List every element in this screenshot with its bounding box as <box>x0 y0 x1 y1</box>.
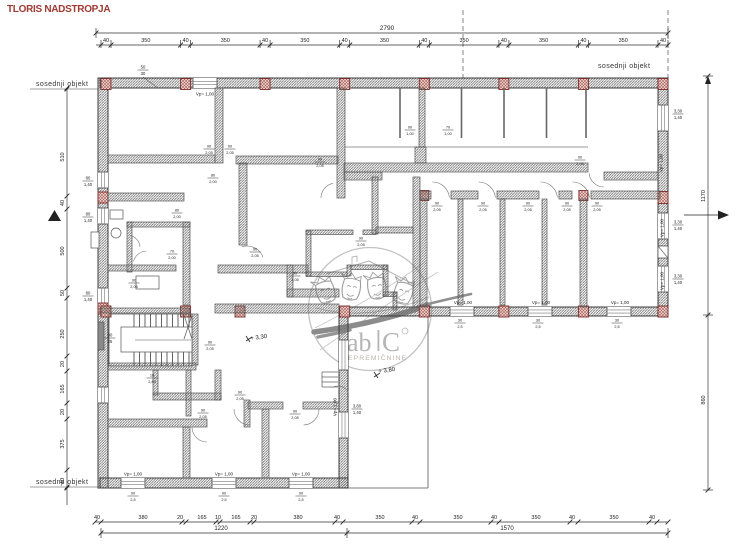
svg-text:500: 500 <box>60 246 66 255</box>
door arc wing 2 <box>234 409 249 425</box>
stack bath door2 <box>167 250 178 260</box>
stack bath door <box>129 279 140 289</box>
svg-text:80: 80 <box>175 209 179 213</box>
svg-text:90: 90 <box>207 145 211 149</box>
window right wall 3 <box>658 266 668 292</box>
svg-text:25: 25 <box>108 339 113 344</box>
column top wall 1 <box>101 79 111 90</box>
svg-text:20: 20 <box>60 361 66 367</box>
stack door e <box>315 158 326 168</box>
window right wall 2 <box>658 213 668 239</box>
svg-text:90: 90 <box>578 156 582 160</box>
svg-text:3,30: 3,30 <box>674 220 683 225</box>
svg-text:90: 90 <box>565 202 569 206</box>
svg-text:50: 50 <box>60 290 66 296</box>
svg-text:40: 40 <box>103 38 109 44</box>
door arc corridor east <box>589 173 604 187</box>
stack door c <box>250 248 261 258</box>
svg-text:350: 350 <box>375 515 384 521</box>
svg-text:20: 20 <box>177 515 183 521</box>
closet wall a <box>153 370 158 395</box>
svg-text:30: 30 <box>141 71 146 76</box>
svg-text:380: 380 <box>138 515 147 521</box>
svg-text:Vp= 1,00: Vp= 1,00 <box>196 92 215 97</box>
wall vestibule east upper <box>372 177 378 234</box>
spine wall mid <box>215 304 339 313</box>
entry steps <box>322 371 338 373</box>
wall top band east <box>419 88 425 147</box>
svg-text:165: 165 <box>231 515 240 521</box>
wall wing room partition 2 <box>262 409 269 478</box>
svg-text:40: 40 <box>501 38 507 44</box>
svg-text:20: 20 <box>60 409 66 415</box>
svg-text:350: 350 <box>609 515 618 521</box>
svg-text:90: 90 <box>253 248 257 252</box>
svg-text:1170: 1170 <box>701 190 707 202</box>
wall wing rooms north mid <box>248 402 283 409</box>
stack room door <box>562 202 573 212</box>
window right-section bottom 1 <box>450 307 474 316</box>
door arc hall east <box>321 183 333 198</box>
column spine row 3 <box>235 306 245 317</box>
window wing bottom 3 <box>289 478 313 488</box>
shaft left wall <box>98 322 104 350</box>
window right-section bottom 3 <box>607 307 631 316</box>
svg-text:2,05: 2,05 <box>479 208 486 212</box>
stairs <box>109 314 192 366</box>
loggia divider <box>399 88 401 138</box>
svg-text:2,05: 2,05 <box>291 416 298 420</box>
svg-text:40: 40 <box>342 38 348 44</box>
svg-text:2,05: 2,05 <box>236 397 243 401</box>
column top wall 3 <box>260 79 270 90</box>
svg-text:2,00: 2,00 <box>168 256 175 260</box>
wall bath corridor vertical <box>183 222 190 305</box>
svg-text:2790: 2790 <box>380 25 395 32</box>
stack left shaft <box>105 333 116 344</box>
svg-text:40: 40 <box>412 515 418 521</box>
svg-text:ab: ab <box>347 328 372 357</box>
wall niche west <box>306 231 311 276</box>
svg-text:2,05: 2,05 <box>251 254 258 258</box>
outer wall bottom of left wing <box>100 478 348 488</box>
svg-text:90: 90 <box>108 333 113 338</box>
svg-text:2,5: 2,5 <box>614 325 619 329</box>
svg-text:30: 30 <box>536 319 540 323</box>
toilet fixture <box>111 228 121 238</box>
svg-text:80: 80 <box>86 291 91 296</box>
wall bath west <box>127 222 132 272</box>
svg-text:380: 380 <box>293 515 302 521</box>
svg-text:2,05: 2,05 <box>205 151 212 155</box>
svg-text:2,80: 2,80 <box>148 380 155 384</box>
dimension top overall 2790 <box>96 32 668 34</box>
stack room door <box>592 202 603 212</box>
window left wall 3 <box>98 288 108 304</box>
svg-text:350: 350 <box>141 38 150 44</box>
window right wall 1 <box>658 105 668 131</box>
svg-text:50: 50 <box>141 65 146 70</box>
svg-text:350: 350 <box>531 515 540 521</box>
window right-section bottom 2 <box>528 307 552 316</box>
svg-text:Vp= 1,00: Vp= 1,00 <box>333 397 338 416</box>
closet wall c <box>215 370 221 400</box>
svg-text:90: 90 <box>228 145 232 149</box>
stack wing door 1 <box>198 409 209 419</box>
window left wall 4 <box>98 387 108 403</box>
svg-text:165: 165 <box>60 384 66 393</box>
wall niche south b <box>351 265 387 270</box>
outer wall bottom of right section <box>339 307 668 316</box>
svg-text:90: 90 <box>293 272 297 276</box>
svg-text:40: 40 <box>334 515 340 521</box>
stack wing door 2 <box>235 391 246 401</box>
wall bath bottom <box>108 265 176 271</box>
wall niche south c <box>383 292 397 297</box>
shaft right wall <box>658 246 668 258</box>
window top wall <box>193 78 217 88</box>
svg-text:90: 90 <box>201 409 205 413</box>
wall room partition 1 <box>458 199 463 305</box>
svg-text:70: 70 <box>170 250 174 254</box>
wall wing rooms north left <box>108 419 207 427</box>
watermark logo abc nepremicnine <box>309 248 472 371</box>
column top wall 8 <box>658 79 668 90</box>
column right wall mid <box>658 192 668 204</box>
wall hall south jog 1 <box>218 265 308 273</box>
stack left win1 <box>83 176 94 187</box>
dimension top segments <box>96 44 668 46</box>
marker triangle right <box>718 211 729 220</box>
svg-text:350: 350 <box>460 38 469 44</box>
svg-text:2,05: 2,05 <box>563 208 570 212</box>
door arc room <box>573 182 590 198</box>
stack door a <box>208 174 219 184</box>
stack room door <box>432 202 443 212</box>
svg-text:NEPREMIČNINE: NEPREMIČNINE <box>342 353 407 362</box>
wall bottom of top-left room <box>108 155 215 163</box>
svg-text:30: 30 <box>458 319 462 323</box>
stack left win3 <box>83 291 94 302</box>
svg-text:40: 40 <box>580 38 586 44</box>
outer wall right <box>658 78 668 317</box>
svg-text:1,00: 1,00 <box>406 132 413 136</box>
svg-text:250: 250 <box>60 329 66 338</box>
svg-text:40: 40 <box>660 38 666 44</box>
wall bath top <box>127 222 190 227</box>
svg-text:3,30: 3,30 <box>674 109 683 114</box>
stack wing below <box>219 492 230 502</box>
niche band line <box>345 146 588 148</box>
svg-text:350: 350 <box>539 38 548 44</box>
wall niche south a <box>306 272 347 277</box>
column spine row 7 <box>578 306 588 317</box>
svg-text:2,05: 2,05 <box>357 243 364 247</box>
dimension right vertical <box>707 76 709 315</box>
wall room partition hatched a <box>420 199 427 307</box>
svg-text:350: 350 <box>453 515 462 521</box>
stack room door <box>478 202 489 212</box>
svg-text:1220: 1220 <box>214 526 228 532</box>
door arc room <box>541 182 558 198</box>
wall hall south jog 2 <box>287 289 339 297</box>
stack niche <box>405 126 416 136</box>
svg-text:Vp= 1,00: Vp= 1,00 <box>532 300 551 305</box>
column top wall 6 <box>499 79 509 90</box>
stack stair <box>147 374 158 384</box>
svg-text:90: 90 <box>208 341 212 345</box>
stack spine below <box>612 319 623 329</box>
wall wing rooms north right <box>303 402 339 409</box>
door arc hall west <box>242 246 263 257</box>
terrace outline <box>348 487 428 489</box>
svg-text:2,05: 2,05 <box>226 151 233 155</box>
svg-text:10: 10 <box>150 374 154 378</box>
stack vestibule door <box>356 237 367 247</box>
column room row a <box>420 191 429 201</box>
svg-text:40: 40 <box>649 515 655 521</box>
door arc bath <box>134 251 147 261</box>
svg-text:2,5: 2,5 <box>298 498 303 502</box>
wall left apartment <box>108 193 184 201</box>
svg-text:350: 350 <box>380 38 389 44</box>
svg-text:3,30: 3,30 <box>674 274 683 279</box>
dimension left vertical <box>66 88 68 505</box>
svg-text:2,05: 2,05 <box>576 162 583 166</box>
svg-text:860: 860 <box>701 395 707 404</box>
wall room front seg <box>591 191 660 199</box>
svg-text:2,05: 2,05 <box>130 285 137 289</box>
svg-text:1,40: 1,40 <box>674 226 683 231</box>
wall corridor north east part <box>604 172 658 180</box>
loggia divider <box>461 88 463 138</box>
wall niche east down <box>383 265 388 296</box>
column spine row 1 <box>101 306 111 317</box>
wall wing room partition 1 <box>183 427 190 478</box>
column spine row 8 <box>658 306 668 317</box>
wall top-middle room bottom <box>236 156 338 164</box>
stack wing window <box>352 404 363 415</box>
svg-text:90: 90 <box>359 237 363 241</box>
svg-text:Vp= 1,00: Vp= 1,00 <box>660 218 665 237</box>
wall hall jog vertical <box>287 265 293 297</box>
loggia divider <box>503 88 505 138</box>
svg-text:90: 90 <box>435 202 439 206</box>
stack spine below <box>533 319 544 329</box>
svg-text:Vp= 1,00: Vp= 1,00 <box>660 271 665 290</box>
svg-text:90: 90 <box>293 410 297 414</box>
leader top stack <box>143 77 158 88</box>
svg-text:Vp= 1,00: Vp= 1,00 <box>611 300 630 305</box>
wall room front seg <box>559 191 572 199</box>
svg-text:2,5: 2,5 <box>457 325 462 329</box>
closet wall bottom <box>153 393 221 400</box>
wall niche top b <box>363 230 376 235</box>
svg-text:2,05: 2,05 <box>433 208 440 212</box>
door arc wing 1 <box>192 428 207 443</box>
stack stair door <box>205 341 216 351</box>
stack door b <box>172 209 183 219</box>
stack right wall win1 <box>673 109 684 120</box>
wall hall west vertical <box>239 163 247 245</box>
svg-text:2,05: 2,05 <box>291 278 298 282</box>
svg-text:1,40: 1,40 <box>84 218 93 223</box>
svg-text:Vp= 1,00: Vp= 1,00 <box>659 153 664 172</box>
outer wall left <box>98 78 108 488</box>
stack right wall win3 <box>673 274 684 285</box>
stack left win2 <box>83 212 94 223</box>
wall corridor jog <box>344 172 382 180</box>
svg-text:Vp= 1,00: Vp= 1,00 <box>454 300 473 305</box>
wall room partition 3 <box>542 199 547 305</box>
svg-text:40: 40 <box>421 38 427 44</box>
column spine row 4 <box>340 306 350 317</box>
window left wall 1 <box>98 172 108 188</box>
svg-text:1,40: 1,40 <box>84 182 93 187</box>
window left wall 2 <box>98 208 108 224</box>
svg-text:90: 90 <box>526 202 530 206</box>
wall niche jog up <box>347 265 351 276</box>
svg-text:1,40: 1,40 <box>84 297 93 302</box>
stack niche2 <box>443 126 454 136</box>
svg-text:Vp= 1,00: Vp= 1,00 <box>215 472 234 477</box>
dimension bottom segments <box>95 521 668 523</box>
svg-text:2,05: 2,05 <box>593 208 600 212</box>
svg-text:30: 30 <box>615 319 619 323</box>
column top wall 2 <box>181 79 191 90</box>
svg-text:40: 40 <box>183 38 189 44</box>
loggia divider <box>585 88 587 138</box>
svg-text:40: 40 <box>60 478 66 484</box>
stack door d <box>290 272 301 282</box>
window wing right wall 1 <box>339 340 348 370</box>
door arc room <box>433 182 450 198</box>
svg-text:90: 90 <box>481 202 485 206</box>
dimension bottom overall <box>101 532 347 534</box>
outer wall top <box>100 78 668 88</box>
column top wall 4 <box>340 79 350 90</box>
svg-text:2,05: 2,05 <box>316 164 323 168</box>
axis dashed line A <box>462 10 464 78</box>
svg-text:40: 40 <box>491 515 497 521</box>
window wing bottom 1 <box>121 478 145 488</box>
wall closet east <box>413 177 420 307</box>
box left wall <box>91 232 99 248</box>
column top wall 5 <box>419 79 429 90</box>
outer wall right of left wing <box>339 307 348 488</box>
svg-text:70: 70 <box>446 126 450 130</box>
door arc wing 3 <box>304 409 319 425</box>
stack top wall <box>138 65 149 76</box>
svg-text:90: 90 <box>131 492 135 496</box>
svg-text:1,40: 1,40 <box>674 280 683 285</box>
svg-text:sosednji objekt: sosednji objekt <box>598 63 650 70</box>
svg-text:1,00: 1,00 <box>444 132 451 136</box>
wall room partition 2 <box>500 199 505 305</box>
svg-text:40: 40 <box>262 38 268 44</box>
svg-text:2,05: 2,05 <box>206 347 213 351</box>
wall room front seg <box>451 191 478 199</box>
column top wall 7 <box>578 79 588 90</box>
stack right wall win2 <box>673 220 684 231</box>
wall niche to spine <box>393 292 397 310</box>
column room row b <box>579 191 588 201</box>
wall hall east vertical full <box>337 88 345 198</box>
wall room partition hatched b <box>580 199 587 307</box>
svg-text:90: 90 <box>222 492 226 496</box>
svg-text:2,00: 2,00 <box>209 180 216 184</box>
svg-text:10: 10 <box>215 515 221 521</box>
svg-text:2,5: 2,5 <box>221 498 226 502</box>
wall niche top a <box>306 230 353 235</box>
svg-text:2,00: 2,00 <box>173 215 180 219</box>
svg-text:510: 510 <box>60 152 66 161</box>
stack wing door 3 <box>290 410 301 420</box>
marker triangle left <box>48 210 61 221</box>
wall room front seg <box>420 191 431 199</box>
svg-text:90: 90 <box>238 391 242 395</box>
closet wall b <box>186 370 191 416</box>
svg-text:165: 165 <box>197 515 206 521</box>
spine wall left thin <box>100 308 190 313</box>
wall room front seg <box>497 191 539 199</box>
column spine row 2 <box>181 306 191 317</box>
svg-text:2,5: 2,5 <box>130 498 135 502</box>
svg-text:C: C <box>382 327 400 357</box>
loggia divider <box>546 88 548 138</box>
wall closet top <box>376 227 413 233</box>
svg-text:350: 350 <box>619 38 628 44</box>
svg-text:90: 90 <box>299 492 303 496</box>
stairwell east wall <box>192 314 198 365</box>
axis dashed line B <box>667 10 669 78</box>
svg-text:90: 90 <box>318 158 322 162</box>
door arc room <box>479 182 496 198</box>
column spine row 5 <box>419 306 429 317</box>
svg-text:40: 40 <box>569 515 575 521</box>
wall wing jog vertical <box>244 400 250 427</box>
stack door B2 <box>225 145 236 155</box>
stack door B1 <box>204 145 215 155</box>
svg-text:TLORIS NADSTROPJA: TLORIS NADSTROPJA <box>7 4 110 15</box>
stack spine below <box>455 319 466 329</box>
svg-text:350: 350 <box>221 38 230 44</box>
svg-text:1570: 1570 <box>500 526 514 532</box>
wall between top-left rooms <box>215 88 223 163</box>
column spine row 6 <box>499 306 509 317</box>
svg-text:Vp= 1,00: Vp= 1,00 <box>124 472 143 477</box>
stack room door <box>523 202 534 212</box>
stack wing below <box>296 492 307 502</box>
svg-text:40: 40 <box>94 515 100 521</box>
stack wing below <box>128 492 139 502</box>
svg-text:40: 40 <box>60 200 66 206</box>
svg-text:375: 375 <box>60 439 66 448</box>
svg-text:sosednji objekt: sosednji objekt <box>36 81 88 88</box>
door arc wc <box>130 235 140 247</box>
svg-text:1,40: 1,40 <box>353 410 362 415</box>
wall corridor north <box>344 163 588 172</box>
svg-text:3,80: 3,80 <box>353 404 362 409</box>
stack door f <box>575 156 586 166</box>
svg-text:1,40: 1,40 <box>674 115 683 120</box>
svg-text:Vp= 1,00: Vp= 1,00 <box>292 472 311 477</box>
svg-text:90: 90 <box>132 279 136 283</box>
svg-text:2,05: 2,05 <box>199 415 206 419</box>
svg-text:2,5: 2,5 <box>535 325 540 329</box>
svg-text:80: 80 <box>86 176 91 181</box>
sink fixture <box>136 276 159 289</box>
